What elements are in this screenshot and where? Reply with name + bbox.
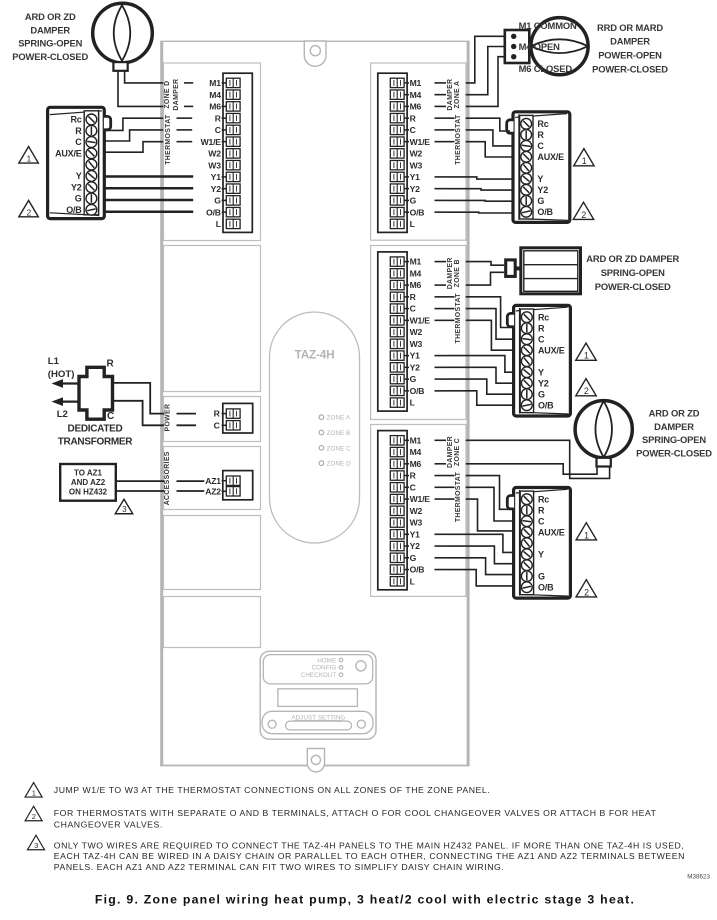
svg-text:ARD OR ZD: ARD OR ZD bbox=[649, 408, 700, 419]
svg-text:C: C bbox=[410, 482, 416, 492]
svg-text:Y2: Y2 bbox=[410, 184, 421, 194]
svg-text:R: R bbox=[410, 471, 417, 481]
svg-text:C: C bbox=[537, 141, 544, 151]
svg-text:W3: W3 bbox=[410, 160, 423, 170]
svg-text:DEDICATED: DEDICATED bbox=[68, 424, 123, 435]
svg-text:G: G bbox=[410, 553, 417, 563]
svg-text:M6: M6 bbox=[209, 102, 221, 112]
svg-text:G: G bbox=[410, 196, 417, 206]
svg-text:R: R bbox=[107, 359, 115, 370]
svg-text:G: G bbox=[538, 571, 545, 581]
svg-text:TRANSFORMER: TRANSFORMER bbox=[58, 437, 134, 448]
svg-text:Y: Y bbox=[538, 367, 544, 377]
svg-text:RRD OR MARD: RRD OR MARD bbox=[597, 22, 663, 33]
svg-text:M38623: M38623 bbox=[687, 874, 710, 881]
svg-text:1: 1 bbox=[584, 530, 589, 540]
svg-text:R: R bbox=[410, 113, 417, 123]
svg-text:M6: M6 bbox=[410, 102, 422, 112]
svg-text:POWER-CLOSED: POWER-CLOSED bbox=[12, 51, 88, 62]
svg-text:R: R bbox=[538, 323, 545, 333]
svg-text:M1 COMMON: M1 COMMON bbox=[519, 20, 577, 31]
svg-text:M4: M4 bbox=[410, 268, 422, 278]
svg-text:W2: W2 bbox=[410, 327, 423, 337]
svg-text:G: G bbox=[538, 389, 545, 399]
svg-text:POWER-CLOSED: POWER-CLOSED bbox=[595, 281, 671, 292]
svg-text:W3: W3 bbox=[410, 518, 423, 528]
svg-text:DAMPER: DAMPER bbox=[173, 79, 180, 111]
svg-text:M1: M1 bbox=[410, 78, 422, 88]
svg-text:W2: W2 bbox=[410, 149, 423, 159]
svg-text:1: 1 bbox=[32, 788, 36, 797]
svg-text:O/B: O/B bbox=[206, 207, 221, 217]
svg-text:C: C bbox=[75, 137, 82, 147]
svg-text:W1/E: W1/E bbox=[410, 315, 431, 325]
svg-text:C: C bbox=[214, 420, 220, 430]
svg-text:TO AZ1: TO AZ1 bbox=[74, 469, 103, 478]
svg-text:W1/E: W1/E bbox=[410, 137, 431, 147]
svg-text:CHECKOUT: CHECKOUT bbox=[301, 672, 337, 679]
svg-text:AUX/E: AUX/E bbox=[55, 149, 82, 159]
svg-text:THERMOSTAT: THERMOSTAT bbox=[455, 114, 462, 165]
svg-text:C: C bbox=[410, 125, 416, 135]
svg-text:R: R bbox=[410, 292, 417, 302]
svg-text:ONLY TWO WIRES ARE REQUIRED TO: ONLY TWO WIRES ARE REQUIRED TO CONNECT T… bbox=[54, 841, 685, 851]
svg-text:Y: Y bbox=[537, 174, 543, 184]
svg-text:2: 2 bbox=[584, 587, 589, 597]
svg-text:POWER-CLOSED: POWER-CLOSED bbox=[636, 448, 712, 459]
svg-text:EACH TAZ-4H CAN BE WIRED IN A: EACH TAZ-4H CAN BE WIRED IN A DAISY CHAI… bbox=[54, 851, 685, 861]
svg-text:Rc: Rc bbox=[538, 494, 549, 504]
svg-text:O/B: O/B bbox=[538, 582, 554, 592]
svg-text:DAMPER: DAMPER bbox=[30, 24, 70, 35]
svg-text:SPRING-OPEN: SPRING-OPEN bbox=[18, 38, 82, 49]
svg-text:C: C bbox=[107, 411, 114, 422]
svg-text:R: R bbox=[537, 130, 544, 140]
svg-text:AUX/E: AUX/E bbox=[538, 345, 565, 355]
svg-text:THERMOSTAT: THERMOSTAT bbox=[455, 471, 462, 522]
svg-text:G: G bbox=[537, 196, 544, 206]
svg-text:M6 CLOSED: M6 CLOSED bbox=[519, 63, 573, 74]
svg-text:C: C bbox=[215, 125, 221, 135]
svg-text:ACCESSORIES: ACCESSORIES bbox=[164, 451, 171, 505]
svg-text:AUX/E: AUX/E bbox=[537, 152, 564, 162]
svg-text:W1/E: W1/E bbox=[201, 137, 222, 147]
svg-text:M4 OPEN: M4 OPEN bbox=[519, 41, 561, 52]
svg-text:DAMPER: DAMPER bbox=[654, 421, 694, 432]
svg-text:ON HZ432: ON HZ432 bbox=[69, 488, 108, 497]
svg-text:O/B: O/B bbox=[66, 205, 82, 215]
svg-text:ZONE B: ZONE B bbox=[327, 430, 351, 437]
svg-text:M4: M4 bbox=[410, 447, 422, 457]
svg-text:CHANGEOVER VALVES.: CHANGEOVER VALVES. bbox=[54, 820, 163, 830]
svg-text:1: 1 bbox=[582, 156, 587, 166]
svg-text:DAMPER: DAMPER bbox=[447, 436, 454, 468]
svg-text:POWER: POWER bbox=[164, 404, 171, 432]
svg-text:2: 2 bbox=[32, 812, 36, 821]
svg-text:ZONE A: ZONE A bbox=[454, 81, 461, 109]
svg-text:2: 2 bbox=[581, 210, 586, 220]
svg-text:3: 3 bbox=[122, 505, 127, 514]
svg-text:W2: W2 bbox=[410, 506, 423, 516]
svg-text:AUX/E: AUX/E bbox=[538, 527, 565, 537]
svg-text:ZONE D: ZONE D bbox=[327, 461, 352, 468]
svg-text:O/B: O/B bbox=[538, 400, 554, 410]
svg-text:Y2: Y2 bbox=[410, 362, 421, 372]
svg-text:HOME: HOME bbox=[317, 657, 336, 664]
svg-text:SPRING-OPEN: SPRING-OPEN bbox=[642, 434, 706, 445]
svg-text:L: L bbox=[410, 576, 415, 586]
svg-text:DAMPER: DAMPER bbox=[447, 257, 454, 289]
svg-text:M1: M1 bbox=[410, 435, 422, 445]
svg-text:2: 2 bbox=[584, 386, 589, 396]
svg-text:ZONE A: ZONE A bbox=[327, 415, 351, 422]
svg-text:ARD OR ZD: ARD OR ZD bbox=[25, 11, 76, 22]
svg-text:DAMPER: DAMPER bbox=[610, 36, 650, 47]
svg-text:PANELS. EACH AZ1 AND AZ2 TERMI: PANELS. EACH AZ1 AND AZ2 TERMINAL CAN FI… bbox=[54, 862, 505, 872]
svg-text:Y2: Y2 bbox=[538, 378, 549, 388]
svg-text:R: R bbox=[215, 113, 222, 123]
svg-text:Y1: Y1 bbox=[410, 351, 421, 361]
svg-text:Y1: Y1 bbox=[410, 529, 421, 539]
svg-text:R: R bbox=[214, 409, 221, 419]
svg-text:L: L bbox=[410, 398, 415, 408]
svg-text:W3: W3 bbox=[208, 160, 221, 170]
svg-text:3: 3 bbox=[34, 841, 38, 850]
svg-text:Y: Y bbox=[538, 549, 544, 559]
svg-text:ZONE B: ZONE B bbox=[454, 259, 461, 287]
svg-text:ZONE C: ZONE C bbox=[327, 445, 352, 452]
svg-text:L1: L1 bbox=[48, 356, 60, 367]
svg-text:Y2: Y2 bbox=[410, 541, 421, 551]
svg-text:(HOT): (HOT) bbox=[48, 369, 75, 380]
svg-text:1: 1 bbox=[584, 351, 589, 361]
svg-text:C: C bbox=[410, 304, 416, 314]
svg-text:O/B: O/B bbox=[410, 565, 425, 575]
svg-text:DAMPER: DAMPER bbox=[447, 79, 454, 111]
svg-text:R: R bbox=[75, 126, 82, 136]
svg-text:THERMOSTAT: THERMOSTAT bbox=[165, 114, 172, 165]
svg-text:2: 2 bbox=[27, 207, 32, 217]
svg-text:R: R bbox=[538, 505, 545, 515]
svg-text:L: L bbox=[216, 219, 221, 229]
svg-text:SPRING-OPEN: SPRING-OPEN bbox=[601, 267, 665, 278]
svg-text:Y: Y bbox=[76, 171, 82, 181]
svg-text:M4: M4 bbox=[410, 90, 422, 100]
svg-text:Y1: Y1 bbox=[410, 172, 421, 182]
svg-text:CONFIG: CONFIG bbox=[312, 665, 337, 672]
svg-text:THERMOSTAT: THERMOSTAT bbox=[455, 293, 462, 344]
svg-text:JUMP W1/E TO W3 AT THE THERMOS: JUMP W1/E TO W3 AT THE THERMOSTAT CONNEC… bbox=[54, 785, 490, 795]
svg-text:ZONE D: ZONE D bbox=[164, 81, 171, 109]
svg-text:O/B: O/B bbox=[410, 207, 425, 217]
svg-text:M4: M4 bbox=[209, 90, 221, 100]
svg-text:M6: M6 bbox=[410, 459, 422, 469]
svg-text:TAZ-4H: TAZ-4H bbox=[295, 348, 335, 362]
svg-text:W2: W2 bbox=[208, 149, 221, 159]
svg-text:AZ1: AZ1 bbox=[205, 476, 221, 486]
svg-text:Y2: Y2 bbox=[71, 182, 82, 192]
svg-text:W1/E: W1/E bbox=[410, 494, 431, 504]
svg-text:Y1: Y1 bbox=[211, 172, 222, 182]
svg-text:O/B: O/B bbox=[537, 207, 553, 217]
svg-text:G: G bbox=[410, 374, 417, 384]
svg-text:AZ2: AZ2 bbox=[205, 486, 221, 496]
svg-text:G: G bbox=[214, 196, 221, 206]
svg-text:Rc: Rc bbox=[538, 312, 549, 322]
svg-text:POWER-OPEN: POWER-OPEN bbox=[598, 50, 662, 61]
svg-text:C: C bbox=[538, 516, 545, 526]
svg-text:1: 1 bbox=[27, 153, 32, 163]
svg-text:Rc: Rc bbox=[537, 119, 548, 129]
svg-text:ARD OR ZD DAMPER: ARD OR ZD DAMPER bbox=[586, 253, 679, 264]
svg-text:Y2: Y2 bbox=[211, 184, 222, 194]
svg-text:POWER-CLOSED: POWER-CLOSED bbox=[592, 64, 668, 75]
svg-text:L2: L2 bbox=[57, 409, 68, 420]
svg-text:O/B: O/B bbox=[410, 386, 425, 396]
svg-text:L: L bbox=[410, 219, 415, 229]
svg-text:Rc: Rc bbox=[70, 115, 81, 125]
svg-text:M6: M6 bbox=[410, 280, 422, 290]
svg-text:C: C bbox=[538, 334, 545, 344]
svg-text:AND AZ2: AND AZ2 bbox=[71, 478, 106, 487]
svg-text:FOR THERMOSTATS WITH SEPARATE: FOR THERMOSTATS WITH SEPARATE O AND B TE… bbox=[54, 808, 657, 818]
svg-text:M1: M1 bbox=[410, 257, 422, 267]
svg-text:W3: W3 bbox=[410, 339, 423, 349]
svg-text:ZONE C: ZONE C bbox=[454, 438, 461, 466]
svg-text:Y2: Y2 bbox=[537, 185, 548, 195]
svg-text:M1: M1 bbox=[209, 78, 221, 88]
svg-text:G: G bbox=[75, 194, 82, 204]
svg-text:Fig. 9. Zone panel wiring heat: Fig. 9. Zone panel wiring heat pump, 3 h… bbox=[95, 893, 635, 907]
